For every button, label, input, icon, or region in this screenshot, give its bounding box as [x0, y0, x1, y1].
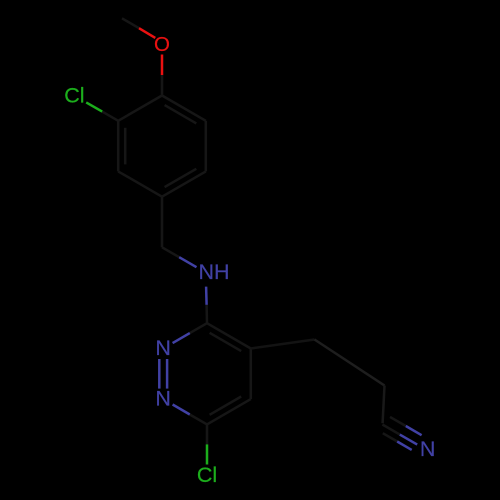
- svg-text:N: N: [155, 387, 171, 411]
- svg-text:Cl: Cl: [197, 463, 217, 487]
- svg-text:Cl: Cl: [64, 84, 84, 108]
- svg-text:NH: NH: [199, 260, 230, 284]
- svg-text:N: N: [420, 437, 436, 461]
- svg-text:O: O: [154, 33, 170, 56]
- svg-text:N: N: [155, 336, 171, 360]
